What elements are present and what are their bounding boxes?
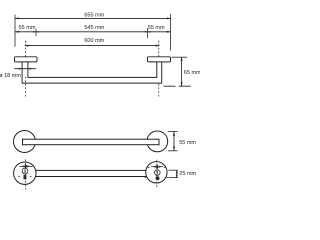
centerline left post (dashed)	[25, 41, 27, 97]
svg-text:65 mm: 65 mm	[184, 70, 200, 76]
dimension line 600 mm	[25, 45, 160, 47]
svg-text:ø 18 mm: ø 18 mm	[0, 73, 21, 79]
left rosette centerline vertical	[24, 159, 26, 189]
65 mm dimension line	[181, 57, 183, 86]
front view A: bar	[23, 139, 160, 145]
svg-text:25 mm: 25 mm	[179, 171, 196, 177]
left arm outer edge	[22, 62, 162, 84]
right rosette side dashes	[145, 177, 147, 179]
extension line right (x=170.5)	[170, 14, 172, 51]
dia 18 mm dimension line	[14, 68, 36, 70]
svg-text:655 mm: 655 mm	[84, 12, 104, 18]
left rosette screw ring	[22, 168, 28, 174]
front view B: bar	[35, 170, 147, 176]
left rosette lower slot	[24, 175, 27, 180]
svg-text:55 mm: 55 mm	[179, 140, 196, 146]
tick at x=148.5	[147, 28, 149, 38]
right rosette screw ring	[155, 170, 161, 176]
25 mm dimension (view B): bottom tick	[169, 177, 179, 179]
55 mm dimension (view A): bottom tick	[168, 150, 178, 152]
right wall plate (top view)	[148, 57, 171, 62]
dimension line 55/545/55 row	[15, 31, 171, 33]
bar top edge + inner arm edges	[28, 62, 157, 78]
extension line left (x=15)	[14, 15, 16, 47]
left arm mask	[23, 62, 28, 77]
front view B: left rosette circle	[14, 162, 36, 184]
right rosette lower screw	[156, 176, 160, 180]
front view A: left rosette circle	[14, 131, 36, 153]
left rosette keyhole slot	[19, 165, 32, 167]
svg-text:600 mm: 600 mm	[84, 38, 104, 44]
svg-text:545 mm: 545 mm	[84, 25, 104, 31]
tick at x=36	[35, 29, 37, 36]
left rosette side dashes	[18, 175, 20, 177]
front view B: right rosette circle	[146, 162, 167, 183]
right rosette keyhole slot	[151, 166, 163, 168]
left wall plate (top view)	[15, 57, 38, 62]
55 mm dimension (view A): vertical line	[173, 132, 175, 151]
front view A: right rosette circle	[147, 131, 168, 152]
25 mm dimension (view B): top tick	[169, 169, 179, 171]
svg-text:55 mm: 55 mm	[19, 25, 36, 31]
dimension line 655 mm	[15, 17, 171, 19]
65 mm dimension: top extension	[172, 56, 188, 58]
svg-text:55 mm: 55 mm	[148, 25, 165, 31]
25 mm dimension (view B): vertical line	[176, 170, 178, 177]
55 mm dimension (view A): top tick	[168, 131, 178, 133]
65 mm dimension: bottom extension (dashed)	[164, 85, 193, 87]
right arm mask	[157, 62, 161, 83]
right rosette centerline vertical	[156, 160, 158, 187]
centerline right post (dashed)	[158, 41, 160, 98]
